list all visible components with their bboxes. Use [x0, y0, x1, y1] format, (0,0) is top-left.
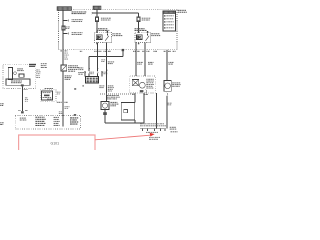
- svg-text:G101: G101: [51, 141, 60, 145]
